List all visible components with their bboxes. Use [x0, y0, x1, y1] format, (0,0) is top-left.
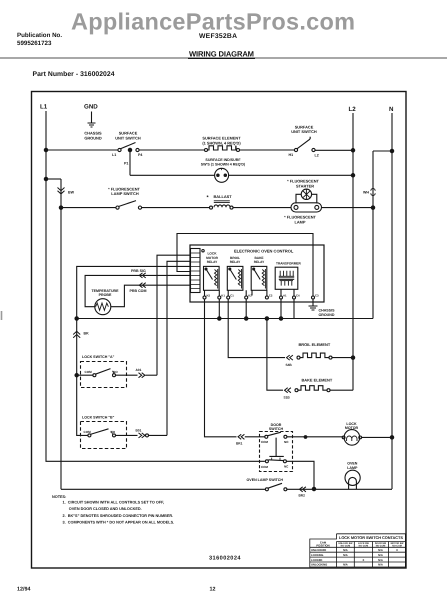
svg-text:L1: L1 — [40, 104, 48, 111]
wire door bottom out — [286, 461, 314, 489]
svg-text:LOCK SWITCH "B": LOCK SWITCH "B" — [82, 416, 115, 420]
motor lock — [344, 430, 360, 446]
node L1 label — [40, 104, 48, 111]
svg-text:CHASSIS: CHASSIS — [319, 309, 336, 313]
lamp oven — [345, 470, 360, 485]
wire lock B out — [116, 434, 138, 436]
wire fluorescent run — [61, 207, 116, 209]
svg-text:2. BK"S" DENOTES SHROUDED CON: 2. BK"S" DENOTES SHROUDED CONNECTOR PIN … — [63, 514, 174, 518]
wire indicator to L2 — [229, 174, 353, 176]
header model number WEF352BA — [199, 33, 237, 40]
svg-text:SWITCH: SWITCH — [269, 427, 284, 431]
node L2 label — [349, 106, 357, 113]
lamp surface indicator — [215, 168, 229, 182]
svg-text:L2: L2 — [349, 106, 357, 113]
wire door feed from EOC pin K5 — [205, 299, 237, 437]
connector door QD BR1 — [238, 434, 244, 439]
wire lock A out — [116, 374, 138, 376]
wire bw vertical — [60, 179, 62, 489]
table lock motor switch contacts — [310, 534, 406, 567]
footer part number — [209, 556, 241, 562]
svg-text:WIRING DIAGRAM: WIRING DIAGRAM — [189, 50, 254, 59]
inductor ballast — [210, 206, 213, 209]
svg-text:Part Number - 316002024: Part Number - 316002024 — [33, 71, 115, 78]
svg-text:LAMP SWITCH: LAMP SWITCH — [111, 191, 139, 196]
junction bus dots — [218, 317, 221, 320]
svg-text:LOCK SWITCH "A": LOCK SWITCH "A" — [82, 355, 115, 359]
watermark AppliancePartsPros.com — [71, 9, 355, 35]
svg-text:3. COMPONENTS WITH * DO NOT A: 3. COMPONENTS WITH * DO NOT APPEAR ON AL… — [63, 520, 175, 524]
header rule — [0, 57, 447, 59]
svg-text:1. CIRCUIT SHOWN WITH ALL CON: 1. CIRCUIT SHOWN WITH ALL CONTROLS SET T… — [63, 501, 165, 505]
switch fluorescent lamp — [116, 206, 119, 209]
svg-text:GROUND: GROUND — [84, 136, 101, 141]
wire bus horizontal — [77, 318, 373, 320]
lamp fluorescent tube — [291, 203, 322, 212]
label PRB SIG — [131, 269, 146, 273]
svg-text:NO-COM: NO-COM — [359, 545, 369, 548]
svg-text:WH: WH — [363, 191, 369, 195]
junction L1 main — [44, 148, 47, 151]
wire bake feed — [267, 319, 283, 391]
junction N branch — [390, 149, 393, 152]
svg-text:BR2: BR2 — [299, 493, 306, 497]
svg-text:K2: K2 — [248, 294, 252, 298]
switch lock A (dashed box) — [81, 362, 127, 388]
starter fluorescent — [301, 189, 311, 199]
svg-text:UNLOCKED: UNLOCKED — [311, 549, 326, 552]
svg-text:UNLOCKING: UNLOCKING — [311, 564, 327, 567]
junction fluorescent branch — [59, 206, 62, 209]
svg-text:PRB COM: PRB COM — [130, 289, 147, 293]
svg-text:12: 12 — [210, 587, 216, 593]
connector WH inline — [371, 189, 375, 196]
svg-text:ELECTRONIC OVEN CONTROL: ELECTRONIC OVEN CONTROL — [234, 249, 294, 254]
svg-text:C4: C4 — [296, 294, 300, 298]
svg-text:AppliancePartsPros.com: AppliancePartsPros.com — [71, 9, 355, 35]
svg-text:X: X — [396, 549, 398, 552]
switch lock B (dashed box) — [81, 422, 127, 449]
wire EOC top loop — [177, 234, 313, 297]
relay K1 lock motor — [204, 266, 220, 290]
wire gnd stem — [91, 112, 93, 123]
wire L1 branch to bw line — [44, 177, 47, 180]
svg-text:PRB SIG: PRB SIG — [131, 269, 146, 273]
wire L1 to door lower — [46, 150, 265, 461]
svg-text:N/A: N/A — [343, 554, 348, 557]
door switch top row — [265, 435, 268, 438]
ground chassis (EOC) — [312, 299, 314, 306]
svg-text:BALLAST: BALLAST — [214, 194, 233, 199]
svg-text:UNLOCK SW: UNLOCK SW — [338, 542, 353, 545]
svg-text:POSITION: POSITION — [316, 544, 329, 548]
switch surface unit (left) — [118, 148, 121, 151]
node N label — [389, 106, 394, 113]
wire main top run — [46, 149, 118, 151]
wire N branch vertical — [372, 151, 374, 319]
svg-text:N/A: N/A — [378, 554, 383, 557]
wire probe common — [111, 285, 191, 307]
svg-text:OVEN DOOR CLOSED AND UNLOCKED.: OVEN DOOR CLOSED AND UNLOCKED. — [69, 507, 142, 511]
electronic oven control box U1 — [190, 245, 324, 302]
wire pin drops to bus — [219, 299, 294, 319]
svg-text:BAKE ELEMENT: BAKE ELEMENT — [302, 377, 333, 382]
junction lock A feed — [75, 374, 78, 377]
label fluorescent lamp — [284, 215, 316, 225]
label oven lamp — [347, 462, 358, 470]
svg-text:LAMP: LAMP — [294, 219, 305, 224]
wire element to right switch — [240, 149, 295, 151]
label lock motor relay — [206, 252, 219, 265]
label chassis ground (top) — [84, 131, 102, 141]
label ballast — [207, 194, 233, 201]
wire strip feed from lock riser B — [167, 261, 191, 435]
svg-text:B01: B01 — [136, 428, 142, 432]
svg-text:N: N — [389, 106, 394, 113]
label surface unit switch (left) — [115, 131, 141, 141]
label broil relay — [230, 256, 241, 264]
label oven lamp switch — [247, 478, 284, 482]
svg-text:NO: NO — [284, 440, 289, 444]
transformer T1 — [275, 267, 298, 289]
svg-text:K1: K1 — [221, 294, 225, 298]
svg-text:SURFACE IND/SURF: SURFACE IND/SURF — [205, 158, 241, 162]
svg-text:P1: P1 — [124, 162, 128, 166]
svg-text:316002024: 316002024 — [209, 556, 241, 562]
connector oven lamp QD — [300, 487, 306, 492]
svg-text:H1: H1 — [289, 153, 294, 157]
svg-text:NO-COM: NO-COM — [376, 545, 386, 548]
label fluorescent lamp switch — [108, 187, 140, 197]
EOC pin stems — [205, 289, 295, 296]
wire tap down to indicator run — [129, 150, 131, 175]
switch oven lamp — [265, 488, 268, 491]
label temperature probe — [91, 289, 119, 297]
svg-text:NOTES:: NOTES: — [52, 495, 66, 499]
svg-text:12/94: 12/94 — [17, 587, 31, 593]
label surface indicator — [201, 158, 246, 166]
label bake element — [302, 377, 333, 382]
junction lock motor N — [390, 436, 393, 439]
svg-text:COM: COM — [85, 370, 93, 374]
label lock switch A — [82, 355, 115, 359]
heater broil element — [297, 356, 300, 359]
wire strip feed long left (bus riser) — [77, 266, 191, 375]
junction lamp N branch — [371, 206, 374, 209]
wire door top to lock motor — [287, 436, 392, 439]
svg-text:BR1: BR1 — [236, 442, 243, 446]
main diagram border — [32, 92, 407, 569]
relay K3 bake — [251, 266, 267, 290]
svg-text:STARTER: STARTER — [296, 183, 314, 188]
label surface unit switch (right) — [291, 125, 317, 135]
wire bw to lock B — [77, 375, 88, 435]
label lock motor — [345, 422, 359, 430]
part number line — [33, 71, 115, 78]
connector probe com QD — [139, 283, 145, 288]
wire N vertical — [391, 113, 393, 489]
notes text — [52, 495, 174, 524]
label surface element — [202, 136, 241, 146]
svg-text:NO-COM: NO-COM — [392, 545, 402, 548]
svg-text:LOCKED: LOCKED — [311, 559, 322, 562]
svg-text:N/A: N/A — [378, 549, 383, 552]
connector BK quick-disconnect — [73, 331, 80, 337]
svg-text:BW: BW — [68, 191, 75, 195]
svg-text:S4B: S4B — [286, 363, 293, 367]
svg-text:LAMP: LAMP — [347, 466, 358, 470]
heater bake element — [295, 389, 298, 392]
switch surface unit (right) — [294, 148, 297, 151]
wire lamp to N branch — [322, 207, 374, 209]
connector probe sig QD — [139, 273, 145, 278]
svg-text:COM: COM — [261, 465, 269, 469]
door switch bottom row — [265, 460, 268, 463]
EOC pin labels — [207, 294, 320, 298]
svg-text:C3: C3 — [315, 294, 319, 298]
heater element surface (coil) — [205, 149, 208, 152]
svg-text:P4: P4 — [138, 153, 142, 157]
svg-text:L2: L2 — [315, 154, 319, 158]
svg-text:RELAY: RELAY — [207, 260, 218, 264]
svg-text:A01: A01 — [136, 368, 142, 372]
svg-text:K5: K5 — [207, 294, 211, 298]
svg-text:RELAY: RELAY — [230, 260, 241, 264]
svg-text:X: X — [363, 559, 365, 562]
wire strip feed from lock riser A — [157, 255, 191, 375]
junction switch tap — [128, 148, 131, 151]
footer page — [210, 587, 216, 593]
door switch link — [269, 438, 283, 457]
EOC pins — [203, 296, 206, 299]
svg-text:PROBE: PROBE — [99, 293, 112, 297]
svg-text:TRANSFORMER: TRANSFORMER — [276, 261, 301, 265]
wire L1 vertical — [45, 111, 47, 150]
svg-text:C1: C1 — [230, 294, 234, 298]
svg-text:LOCK MOTOR SWITCH CONTACTS: LOCK MOTOR SWITCH CONTACTS — [339, 535, 403, 540]
junction L2 indicator — [351, 174, 354, 177]
svg-text:NO: NO — [113, 370, 118, 374]
node GND label — [84, 104, 98, 111]
svg-text:GND: GND — [84, 104, 98, 111]
wire L2 vertical — [352, 113, 354, 390]
svg-text:GROUND: GROUND — [319, 313, 335, 317]
wire switch to ballast — [142, 207, 210, 209]
svg-text:COM: COM — [261, 440, 269, 444]
wire indicator run — [130, 174, 215, 176]
svg-text:TEMPERATURE: TEMPERATURE — [91, 289, 119, 293]
connector bw quick-disconnect — [58, 188, 65, 194]
label broil element — [299, 342, 331, 347]
svg-text:N/A: N/A — [343, 549, 348, 552]
svg-text:(1 SHOWN, 4 REQ'D): (1 SHOWN, 4 REQ'D) — [202, 141, 241, 146]
svg-text:SW'S (1 SHOWN 4 REQ'D): SW'S (1 SHOWN 4 REQ'D) — [201, 163, 246, 167]
wire oven lamp run — [61, 488, 392, 490]
svg-text:MOTOR SW: MOTOR SW — [391, 542, 405, 545]
svg-text:N/A: N/A — [343, 564, 348, 567]
svg-text:A1: A1 — [283, 294, 287, 298]
wire ballast to lamp — [233, 207, 291, 209]
label lock switch B — [82, 416, 115, 420]
svg-text:Publication No.: Publication No. — [17, 32, 62, 39]
connector strip EOC — [191, 249, 201, 293]
svg-text:5995261723: 5995261723 — [17, 40, 52, 47]
wire probe signal — [85, 275, 190, 306]
wire broil feed — [228, 299, 285, 358]
svg-text:NO: NO — [111, 430, 116, 434]
connector broil QD — [287, 355, 293, 360]
footer date — [17, 587, 31, 593]
svg-text:UNIT SWITCH: UNIT SWITCH — [115, 136, 141, 141]
svg-text:NO-COM: NO-COM — [341, 545, 351, 548]
connector lock B QD — [139, 433, 145, 438]
ground chassis (top) — [88, 123, 96, 127]
svg-text:LOCKING: LOCKING — [311, 554, 323, 557]
junction broil L2 — [351, 356, 354, 359]
switch door (dashed box) — [260, 432, 293, 472]
label PRB COM — [130, 289, 147, 293]
header title WIRING DIAGRAM — [189, 50, 254, 59]
svg-text:BK: BK — [84, 332, 90, 336]
svg-text:DOOR SW: DOOR SW — [375, 542, 387, 545]
svg-text:UNIT SWITCH: UNIT SWITCH — [291, 129, 317, 134]
wire after switch to element — [139, 149, 205, 151]
relay K2 broil — [227, 266, 243, 290]
svg-text:LOCK SW: LOCK SW — [358, 542, 370, 545]
header underline — [188, 57, 255, 59]
svg-text:N/A: N/A — [378, 564, 383, 567]
svg-text:S1B: S1B — [284, 395, 291, 399]
wire N branch horizontal — [373, 150, 392, 152]
header publication number — [17, 32, 62, 47]
svg-text:WEF352BA: WEF352BA — [199, 33, 237, 40]
label door switch — [269, 423, 284, 431]
svg-text:C2: C2 — [269, 294, 273, 298]
label bake relay — [254, 256, 265, 264]
svg-text:N/A: N/A — [378, 559, 383, 562]
connector lock A QD — [139, 373, 145, 378]
junction L2 top — [351, 149, 354, 152]
label transformer — [276, 261, 301, 265]
label fluorescent starter — [287, 178, 319, 188]
svg-text:BROIL ELEMENT: BROIL ELEMENT — [299, 342, 331, 347]
connector bake QD — [285, 388, 291, 393]
svg-text:L1: L1 — [112, 153, 116, 157]
svg-text:OVEN LAMP SWITCH: OVEN LAMP SWITCH — [247, 478, 284, 482]
svg-text:RELAY: RELAY — [254, 260, 265, 264]
svg-text:COM: COM — [84, 430, 92, 434]
resistor temperature probe — [95, 299, 111, 315]
wire right switch to L2 — [315, 149, 353, 151]
